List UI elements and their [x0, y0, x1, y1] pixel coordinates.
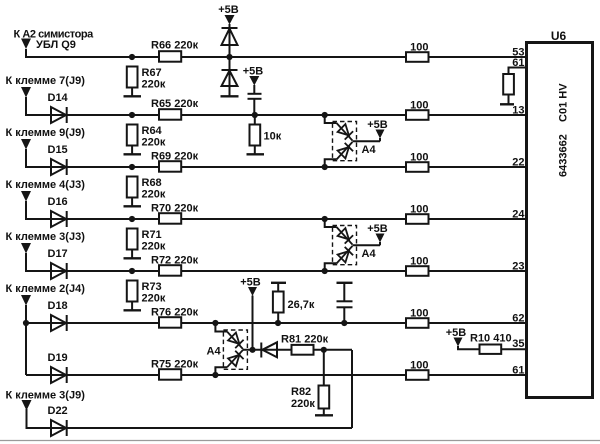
+5B supply (opto3) — [240, 277, 261, 350]
opto A4 (rows 6-7) led diode upper — [227, 332, 244, 350]
wire row4 — [26, 201, 527, 219]
resistor R10 (horizontal) — [480, 345, 502, 354]
diode D18 — [51, 315, 67, 331]
svg-text:R76 220к: R76 220к — [151, 307, 199, 319]
svg-text:13: 13 — [512, 105, 524, 117]
wire row8 — [27, 409, 353, 428]
+5B supply (opto1) — [367, 119, 388, 141]
label 100 (row4) — [410, 204, 428, 216]
label 100 (row3) — [410, 152, 428, 164]
svg-text:R10 410: R10 410 — [470, 333, 512, 345]
resistor R73 (vertical) — [127, 281, 138, 310]
svg-text:100: 100 — [410, 308, 428, 320]
opto A4 (rows 2-3) input stub bottom — [325, 159, 337, 167]
svg-text:D16: D16 — [48, 196, 68, 208]
svg-text:D14: D14 — [48, 92, 69, 104]
label D22 — [48, 405, 68, 417]
label 100 (row5) — [410, 256, 428, 268]
svg-text:R67: R67 — [142, 67, 162, 79]
opto A4 (rows 4-5) input stub bottom — [325, 263, 337, 271]
svg-text:R65 220к: R65 220к — [151, 98, 199, 110]
clamp diode to +5B — [222, 28, 238, 57]
svg-text:К клемме 9(J9): К клемме 9(J9) — [6, 127, 86, 139]
wire R81 to corner — [314, 349, 353, 351]
label R81 220к — [281, 334, 329, 346]
label К клемме 2(J4) — [6, 283, 86, 295]
label D14 — [48, 92, 69, 104]
resistor R65 (horizontal) — [159, 109, 181, 120]
label R70 220к — [151, 203, 199, 215]
wire row6-7 vertical — [25, 323, 27, 375]
svg-text:R71: R71 — [142, 229, 162, 241]
+5B supply (R10) — [446, 327, 480, 349]
resistor 100 (row3) — [406, 162, 429, 172]
svg-text:R81 220к: R81 220к — [281, 334, 329, 346]
wire opto3 common node — [243, 349, 261, 351]
resistor R72 (horizontal) — [159, 265, 181, 276]
label A4 (opto1) — [362, 144, 377, 156]
svg-text:220к: 220к — [142, 189, 166, 201]
svg-text:К клемме 4(J3): К клемме 4(J3) — [6, 179, 86, 191]
wire row8 to R81 node — [351, 350, 353, 428]
ground under R71 — [124, 257, 142, 259]
resistor 10к (vertical) — [250, 115, 261, 154]
svg-text:61: 61 — [512, 365, 524, 377]
ground under 10к — [247, 153, 265, 155]
opto A4 (rows 2-3) dashed box — [333, 122, 357, 161]
pin number 35 — [512, 338, 524, 350]
+5B supply (filter cap) — [243, 66, 264, 94]
opto A4 (rows 6-7) led diode lower — [227, 350, 244, 367]
svg-text:100: 100 — [410, 256, 428, 268]
svg-text:+5В: +5В — [367, 119, 388, 131]
svg-text:26,7к: 26,7к — [288, 299, 315, 311]
ground (up) above capacitor row6 — [337, 282, 353, 284]
ground under R73 — [124, 309, 142, 311]
svg-text:R72 220к: R72 220к — [151, 255, 199, 267]
label R73 220к — [142, 281, 166, 305]
svg-text:D19: D19 — [48, 352, 68, 364]
diode D14 — [51, 107, 67, 123]
input arrow row8 — [22, 400, 32, 411]
svg-text:35: 35 — [512, 338, 524, 350]
svg-text:10к: 10к — [264, 131, 282, 143]
svg-text:+5В: +5В — [218, 4, 239, 16]
svg-text:D15: D15 — [48, 144, 68, 156]
label 100 (row6) — [410, 308, 428, 320]
ground under clamp diode — [221, 95, 239, 97]
svg-text:22: 22 — [512, 157, 524, 169]
svg-text:D22: D22 — [48, 405, 68, 417]
label D16 — [48, 196, 68, 208]
resistor R81 (horizontal) — [292, 345, 314, 355]
label R64 220к — [142, 125, 166, 149]
label 100 (row2) — [410, 100, 428, 112]
svg-text:A4: A4 — [362, 144, 377, 156]
label R67 220к — [142, 67, 166, 91]
label D15 — [48, 144, 68, 156]
svg-text:К клемме 7(J9): К клемме 7(J9) — [6, 75, 86, 87]
wire opto1 common to +5B — [352, 140, 380, 142]
svg-text:R68: R68 — [142, 177, 162, 189]
label К А2 симистора — [14, 29, 95, 41]
diode D17 — [51, 263, 67, 279]
resistor 26,7к (vertical) — [273, 283, 284, 323]
label D19 — [48, 352, 68, 364]
svg-text:R70 220к: R70 220к — [151, 203, 199, 215]
svg-text:+5В: +5В — [240, 277, 261, 289]
svg-text:100: 100 — [410, 100, 428, 112]
label A4 (opto3) — [207, 346, 222, 358]
svg-text:+5В: +5В — [367, 223, 388, 235]
label R10 410 — [470, 333, 512, 345]
resistor R75 (horizontal) — [159, 369, 181, 380]
label A4 (opto2) — [362, 248, 377, 260]
junction node dots — [23, 54, 348, 378]
clamp diode to ground — [222, 57, 238, 96]
pin number 24 — [512, 209, 525, 221]
svg-text:+5В: +5В — [446, 327, 467, 339]
svg-text:61: 61 — [512, 57, 524, 69]
wire row7 — [26, 374, 527, 376]
svg-text:К клемме 3(J3): К клемме 3(J3) — [6, 231, 86, 243]
pin number 61 (top) — [512, 57, 524, 69]
label U6 — [551, 29, 567, 43]
diode D16 — [51, 211, 67, 227]
ground under R67 — [124, 95, 142, 97]
label К клемме 7(J9) — [6, 75, 86, 87]
resistor R67 (vertical) — [127, 67, 138, 96]
resistor R71 (vertical) — [127, 229, 138, 258]
resistor R66 (horizontal) — [159, 51, 181, 62]
label R76 220к — [151, 307, 199, 319]
+5B supply (opto2) — [367, 223, 388, 245]
svg-text:D18: D18 — [48, 300, 68, 312]
resistor R64 (vertical) — [127, 125, 138, 154]
svg-text:R64: R64 — [142, 125, 163, 137]
input arrow row1 — [21, 39, 31, 50]
label R68 220к — [142, 177, 166, 201]
input arrow row5 — [21, 243, 31, 254]
label 100 (row1) — [410, 42, 428, 54]
wire pin 61 (top) with resistor to ground — [509, 68, 527, 75]
svg-text:220к: 220к — [142, 241, 166, 253]
label R69 220к — [151, 151, 199, 163]
svg-text:220к: 220к — [142, 137, 166, 149]
opto A4 (rows 4-5) led diode upper — [337, 227, 354, 245]
ground under pin61 resistor — [500, 103, 514, 105]
label 100 (row7) — [410, 360, 428, 372]
svg-text:23: 23 — [512, 261, 524, 273]
opto A4 (rows 4-5) dashed box — [333, 226, 357, 265]
svg-text:R82: R82 — [291, 386, 311, 398]
pin number 22 — [512, 157, 524, 169]
wire opto2 common to +5B — [352, 244, 380, 246]
svg-text:R75 220к: R75 220к — [151, 359, 199, 371]
svg-text:УБЛ Q9: УБЛ Q9 — [36, 39, 76, 51]
wire row6 — [26, 305, 527, 323]
capacitor C (row2 filter) — [248, 94, 262, 115]
wire R10 to pin 35 — [501, 348, 526, 350]
svg-text:R66 220к: R66 220к — [151, 40, 199, 52]
svg-text:A4: A4 — [362, 248, 377, 260]
pin number 61 (bottom) — [512, 365, 524, 377]
label R65 220к — [151, 98, 199, 110]
pin number 62 — [512, 313, 524, 325]
input arrow row6 — [21, 295, 31, 306]
svg-text:220к: 220к — [142, 293, 166, 305]
wire row3 — [26, 149, 527, 167]
svg-text:R69 220к: R69 220к — [151, 151, 199, 163]
input arrow row4 — [21, 191, 31, 202]
opto A4 (rows 6-7) input stub bottom — [215, 367, 227, 375]
resistor 100 (row7) — [406, 370, 429, 380]
svg-text:100: 100 — [410, 204, 428, 216]
svg-text:220к: 220к — [142, 79, 166, 91]
label R75 220к — [151, 359, 199, 371]
diode D22 — [51, 420, 67, 436]
label 26,7к — [288, 299, 315, 311]
IC part number 6433662 C01 HV (rotated) — [558, 83, 570, 177]
ground under R68 — [124, 205, 142, 207]
label R72 220к — [151, 255, 199, 267]
input arrow row3 — [21, 139, 31, 150]
svg-text:220к: 220к — [291, 398, 315, 410]
capacitor (row6 filter) — [337, 283, 353, 323]
input arrow row2 — [21, 87, 31, 98]
label К клемме 3(J3) — [6, 231, 86, 243]
pin number 23 — [512, 261, 524, 273]
diode at opto3 output (cathode left) — [261, 342, 291, 357]
label 10к — [264, 131, 282, 143]
wire row5 — [26, 253, 527, 271]
resistor 100 (row5) — [406, 266, 429, 276]
pin number 13 — [512, 105, 524, 117]
svg-text:6433662 C01 HV: 6433662 C01 HV — [558, 83, 570, 177]
label R66 220к — [151, 40, 199, 52]
resistor R69 (horizontal) — [159, 161, 181, 172]
diode D19 — [51, 367, 67, 383]
svg-text:62: 62 — [512, 313, 524, 325]
label К клемме 9(J9) — [6, 127, 86, 139]
resistor (pin 61 pulldown) — [503, 74, 514, 104]
opto A4 (rows 2-3) led diode lower — [337, 142, 354, 160]
ground under R64 — [124, 153, 142, 155]
opto A4 (rows 4-5) input stub top — [325, 219, 337, 227]
diode D15 — [51, 159, 67, 175]
svg-text:100: 100 — [410, 152, 428, 164]
label R71 220к — [142, 229, 166, 253]
wire row2 — [26, 97, 527, 115]
label D18 — [48, 300, 68, 312]
resistor R68 (vertical) — [127, 177, 138, 206]
ground (up) above 26,7к — [271, 282, 286, 284]
resistor R82 (vertical) — [319, 350, 330, 415]
label R82 220к — [291, 386, 315, 410]
wire row1 — [26, 49, 527, 57]
pin number 53 — [512, 47, 524, 59]
+5B supply (clamp diodes) — [218, 4, 239, 28]
resistor 100 (row4) — [406, 214, 429, 224]
svg-text:К клемме 2(J4): К клемме 2(J4) — [6, 283, 86, 295]
opto A4 (rows 2-3) input stub top — [325, 115, 337, 123]
label К клемме 3(J9) — [6, 390, 86, 402]
ground under R82 — [315, 414, 333, 416]
resistor 100 (row6) — [406, 318, 429, 328]
svg-text:+5В: +5В — [243, 66, 264, 78]
opto A4 (rows 6-7) dashed box — [223, 330, 247, 369]
label УБЛ Q9 — [36, 39, 76, 51]
resistor 100 (row1) — [406, 52, 429, 62]
svg-text:R73: R73 — [142, 281, 162, 293]
svg-text:A4: A4 — [207, 346, 222, 358]
resistor R76 (horizontal) — [159, 317, 181, 328]
svg-text:D17: D17 — [48, 248, 68, 260]
opto A4 (rows 4-5) led diode lower — [337, 246, 354, 264]
svg-text:К клемме 3(J9): К клемме 3(J9) — [6, 390, 86, 402]
resistor 100 (row2) — [406, 110, 429, 120]
resistor R70 (horizontal) — [159, 213, 181, 224]
opto A4 (rows 6-7) input stub top — [215, 323, 227, 332]
opto A4 (rows 2-3) led diode upper — [337, 123, 354, 141]
svg-text:100: 100 — [410, 42, 428, 54]
svg-text:100: 100 — [410, 360, 428, 372]
IC U6 body — [527, 43, 593, 398]
svg-text:U6: U6 — [551, 29, 567, 43]
label К клемме 4(J3) — [6, 179, 86, 191]
scan artifact bottom line — [0, 440, 600, 442]
label D17 — [48, 248, 68, 260]
svg-text:24: 24 — [512, 209, 525, 221]
